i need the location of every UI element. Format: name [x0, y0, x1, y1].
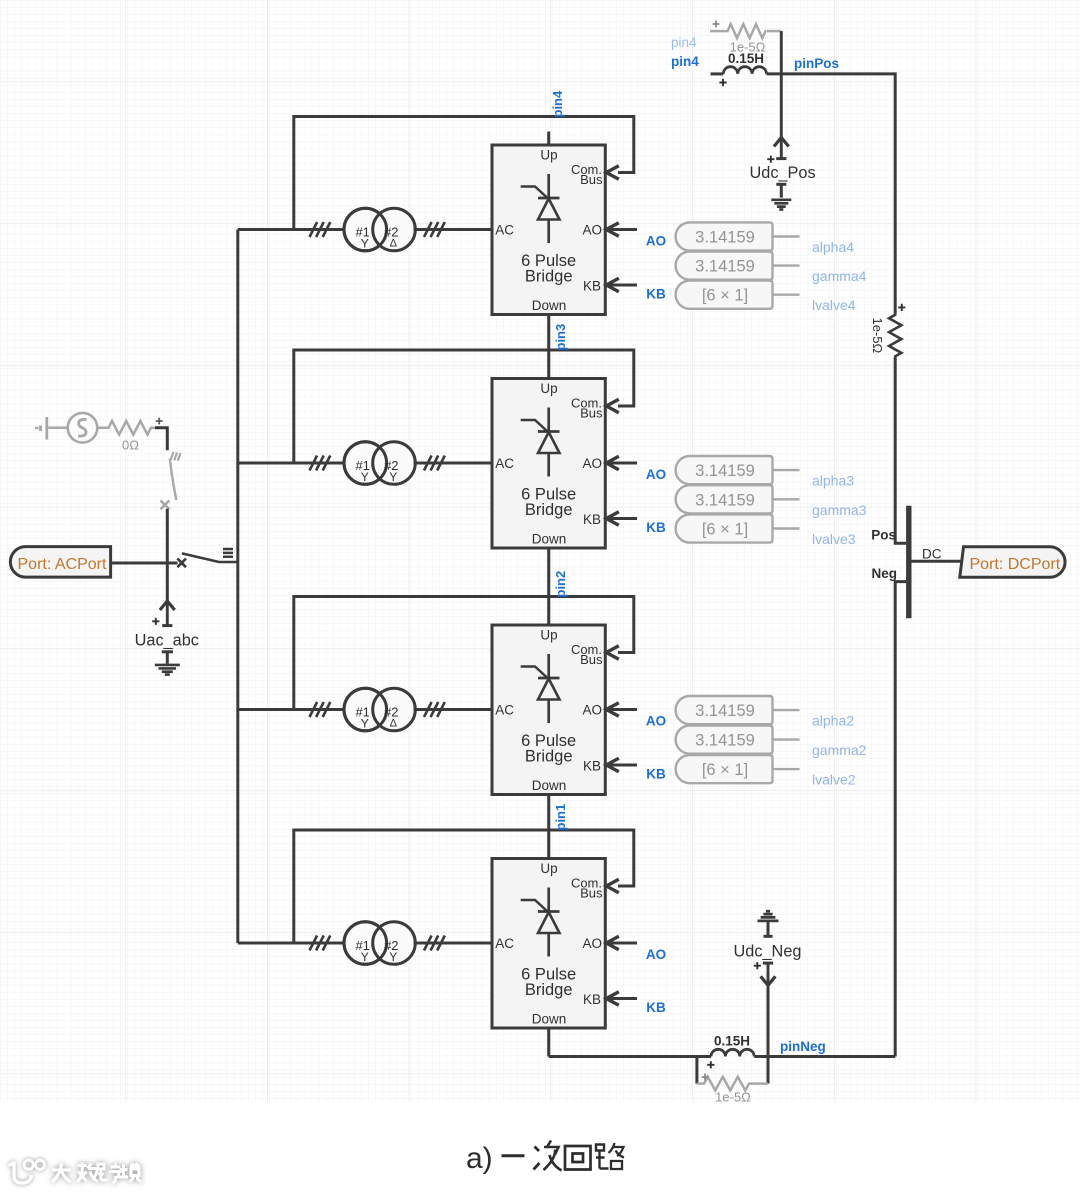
3-phase marks T1 left — [310, 936, 331, 951]
pin arrow Com.Bus U1 — [606, 879, 619, 893]
svg-text:Up: Up — [540, 148, 557, 163]
svg-text:AO: AO — [582, 456, 602, 471]
svg-text:gamma2: gamma2 — [812, 742, 867, 758]
svg-text:Pos: Pos — [871, 528, 896, 543]
svg-text:AO: AO — [646, 467, 666, 482]
svg-text:AO: AO — [582, 703, 602, 718]
wire AC bus to transformer T1 — [238, 942, 346, 945]
parameter tag lvalve2 — [676, 755, 856, 788]
svg-text:pin4: pin4 — [671, 35, 697, 50]
pin arrow + wire KB U2 — [605, 764, 637, 767]
svg-text:KB: KB — [583, 512, 601, 527]
svg-text:Bridge: Bridge — [525, 981, 573, 999]
voltage source S1 — [48, 413, 97, 443]
svg-text:KB: KB — [583, 279, 601, 294]
3-phase marks T4 left — [310, 222, 331, 237]
wire transformer T3 to bridge — [414, 462, 493, 465]
svg-text:lvalve4: lvalve4 — [812, 297, 856, 313]
wire source to breaker — [155, 428, 167, 451]
wire AC bus to transformer T2 — [238, 708, 346, 711]
svg-text:3.14159: 3.14159 — [695, 258, 755, 276]
resistor 0ohm — [97, 418, 162, 453]
svg-text:Bridge: Bridge — [525, 501, 573, 519]
svg-text:AC: AC — [495, 703, 514, 718]
svg-text:pin4: pin4 — [550, 90, 565, 117]
parameter tag alpha4 — [676, 222, 855, 255]
ground below Udc_Pos — [771, 200, 791, 210]
parameter tag gamma2 — [676, 726, 867, 759]
inductor 0.15H (bottom) — [707, 1034, 754, 1069]
resistor 1e-5ohm (bottom, gray) — [697, 1074, 768, 1105]
svg-text:Bridge: Bridge — [525, 268, 573, 286]
wire bridge3 Down to bridge2 Up (net pin2) — [547, 548, 550, 625]
svg-text:0Ω: 0Ω — [122, 438, 139, 453]
switch SW (open blade) — [177, 549, 237, 567]
svg-text:Bridge: Bridge — [525, 748, 573, 766]
svg-text:3.14159: 3.14159 — [695, 229, 755, 247]
resistor 1e-5ohm (top, gray) — [710, 21, 781, 55]
svg-text:0.15H: 0.15H — [714, 1034, 750, 1049]
wire DC bus Neg to pinNeg — [895, 582, 906, 1057]
wire common-bus loop bridge 4 — [294, 117, 634, 230]
svg-text:0.15H: 0.15H — [728, 51, 764, 66]
voltmeter Udc_Pos — [750, 138, 816, 198]
svg-text:Port: DCPort: Port: DCPort — [970, 556, 1061, 573]
wire AC bus to transformer T4 — [238, 228, 346, 231]
wire AC bus to transformer T3 — [238, 462, 346, 465]
svg-text:3.14159: 3.14159 — [695, 462, 755, 480]
wire resistor top to Udc_Pos — [780, 31, 783, 137]
wire DC bus to DCPort — [912, 560, 966, 563]
transformer T1 — [344, 922, 415, 965]
DC bus bar — [906, 506, 911, 618]
svg-text:pin4: pin4 — [671, 54, 699, 69]
svg-text:Y: Y — [389, 950, 397, 964]
inductor 0.15H (top) — [711, 51, 767, 86]
svg-text:gamma4: gamma4 — [812, 268, 867, 284]
svg-text:KB: KB — [583, 992, 601, 1007]
3-phase marks T4 right — [424, 222, 445, 237]
svg-text:3.14159: 3.14159 — [695, 732, 755, 750]
6 Pulse Bridge U1 — [492, 859, 605, 1029]
svg-text:a): a) — [466, 1142, 493, 1175]
pin arrow + wire AO U4 — [605, 228, 637, 231]
3-phase marks T3 right — [424, 456, 445, 471]
parameter tag alpha2 — [676, 696, 855, 729]
svg-text:Up: Up — [540, 381, 557, 396]
wire transformer T2 to bridge — [414, 708, 493, 711]
pin arrow + wire AO U1 — [605, 942, 637, 945]
pin arrow + wire AO U2 — [605, 708, 637, 711]
port ACPort — [10, 547, 110, 578]
wire bridge2 Down to bridge1 Up (net pin1) — [547, 795, 550, 859]
watermark logo — [9, 1160, 45, 1183]
transformer T3 — [344, 442, 415, 485]
svg-text:AO: AO — [646, 714, 666, 729]
svg-text:alpha4: alpha4 — [812, 239, 854, 255]
svg-text:Y: Y — [361, 950, 369, 964]
wire common-bus loop bridge 2 — [294, 597, 634, 710]
wire common-bus loop bridge 1 — [294, 830, 634, 943]
svg-text:Bus: Bus — [580, 886, 603, 901]
svg-text:AO: AO — [582, 223, 602, 238]
parameter tag lvalve4 — [676, 281, 856, 314]
svg-text:Y: Y — [389, 470, 397, 484]
svg-text:AC: AC — [495, 223, 514, 238]
svg-text:3.14159: 3.14159 — [695, 491, 755, 509]
svg-text:[6 × 1]: [6 × 1] — [702, 761, 748, 779]
ground below Uac_abc — [155, 665, 180, 675]
transformer T2 — [344, 688, 415, 731]
wire Udc_Neg to pinNeg bus — [767, 986, 770, 1056]
wire common-bus loop bridge 3 — [294, 350, 634, 463]
svg-text:Y: Y — [361, 716, 369, 730]
svg-text:KB: KB — [646, 287, 666, 302]
svg-text:pin1: pin1 — [553, 804, 568, 831]
parameter tag gamma3 — [676, 485, 867, 518]
svg-text:Bus: Bus — [580, 172, 603, 187]
wire elbows to bottom resistor — [695, 1057, 698, 1084]
svg-text:3.14159: 3.14159 — [695, 702, 755, 720]
svg-text:Y: Y — [361, 470, 369, 484]
svg-text:gamma3: gamma3 — [812, 502, 867, 518]
svg-text:Y: Y — [361, 236, 369, 250]
svg-text:Uac_abc: Uac_abc — [135, 632, 199, 650]
svg-text:[6 × 1]: [6 × 1] — [702, 521, 748, 539]
transformer T4 — [344, 208, 415, 251]
pin arrow Com.Bus U3 — [606, 399, 619, 413]
ground above Udc_Neg — [758, 911, 779, 921]
pin arrow + wire AO U3 — [605, 462, 637, 465]
parameter tag lvalve3 — [676, 514, 856, 547]
resistor 1e-5ohm (right, vertical) — [870, 304, 905, 358]
6 Pulse Bridge U3 — [492, 379, 605, 549]
svg-text:Bus: Bus — [580, 652, 603, 667]
wire ACPort to switch — [111, 562, 178, 565]
svg-text:AO: AO — [646, 947, 666, 962]
pin arrow + wire KB U1 — [605, 997, 637, 1000]
svg-text:Bus: Bus — [580, 406, 603, 421]
wire bridge1 Down to pinNeg bus — [547, 1028, 550, 1057]
port DCPort — [960, 547, 1065, 578]
parameter tag gamma4 — [676, 252, 867, 285]
breaker BRK (open, gray) — [161, 452, 181, 509]
wire Up stub bridge 4 (net pin4) — [547, 132, 550, 146]
svg-text:alpha3: alpha3 — [812, 473, 854, 489]
wire transformer T1 to bridge — [414, 942, 493, 945]
wire resistor to DC bus Pos — [895, 357, 906, 543]
caption: a) 一次回路 — [466, 1141, 624, 1176]
3-phase marks T3 left — [310, 456, 331, 471]
svg-text:AC: AC — [495, 456, 514, 471]
3-phase marks T2 right — [424, 702, 445, 717]
pin arrow + wire KB U4 — [605, 284, 637, 287]
svg-text:pin2: pin2 — [553, 571, 568, 598]
wire pinPos: inductor to right bus — [767, 74, 896, 314]
svg-text:AC: AC — [495, 936, 514, 951]
svg-text:lvalve2: lvalve2 — [812, 772, 856, 788]
svg-text:pinPos: pinPos — [794, 56, 839, 71]
pin arrow + wire KB U3 — [605, 517, 637, 520]
svg-text:KB: KB — [646, 767, 666, 782]
svg-text:[6 × 1]: [6 × 1] — [702, 287, 748, 305]
wire pinNeg horizontal — [549, 1055, 711, 1058]
svg-text:Up: Up — [540, 861, 557, 876]
svg-text:Down: Down — [532, 298, 567, 313]
svg-text:1e-5Ω: 1e-5Ω — [715, 1090, 751, 1105]
svg-text:AO: AO — [582, 936, 602, 951]
wire bridge4 Down to bridge3 Up (net pin3) — [547, 315, 550, 379]
svg-text:Down: Down — [532, 778, 567, 793]
svg-text:alpha2: alpha2 — [812, 713, 854, 729]
svg-text:KB: KB — [583, 759, 601, 774]
svg-text:Port: ACPort: Port: ACPort — [18, 556, 107, 573]
pin arrow Com.Bus U4 — [606, 166, 619, 180]
svg-text:Down: Down — [532, 1012, 567, 1027]
AC bus vertical — [236, 230, 239, 944]
svg-text:AO: AO — [646, 234, 666, 249]
svg-text:Udc_Pos: Udc_Pos — [750, 164, 816, 182]
svg-text:KB: KB — [646, 1000, 666, 1015]
6 Pulse Bridge U2 — [492, 625, 605, 795]
svg-text:KB: KB — [646, 520, 666, 535]
svg-text:Δ: Δ — [390, 238, 398, 250]
6 Pulse Bridge U4 — [492, 145, 605, 315]
svg-text:1e-5Ω: 1e-5Ω — [870, 318, 885, 354]
svg-text:Δ: Δ — [390, 718, 398, 730]
wire transformer T4 to bridge — [414, 228, 493, 231]
watermark text — [52, 1163, 142, 1184]
3-phase marks T2 left — [310, 702, 331, 717]
svg-text:lvalve3: lvalve3 — [812, 531, 856, 547]
3-phase marks T1 right — [424, 936, 445, 951]
svg-text:DC: DC — [922, 547, 942, 562]
svg-text:Down: Down — [532, 532, 567, 547]
svg-text:Udc_Neg: Udc_Neg — [734, 943, 802, 961]
parameter tag alpha3 — [676, 456, 855, 489]
svg-text:pinNeg: pinNeg — [780, 1039, 826, 1054]
svg-text:pin3: pin3 — [553, 324, 568, 351]
voltmeter Uac_abc — [135, 601, 199, 664]
ground (source side) — [35, 417, 47, 440]
svg-text:Up: Up — [540, 628, 557, 643]
wire breaker to AC junction — [166, 509, 169, 601]
pin arrow Com.Bus U2 — [606, 646, 619, 660]
svg-text:Neg: Neg — [871, 566, 897, 581]
voltmeter Udc_Neg — [734, 921, 802, 985]
